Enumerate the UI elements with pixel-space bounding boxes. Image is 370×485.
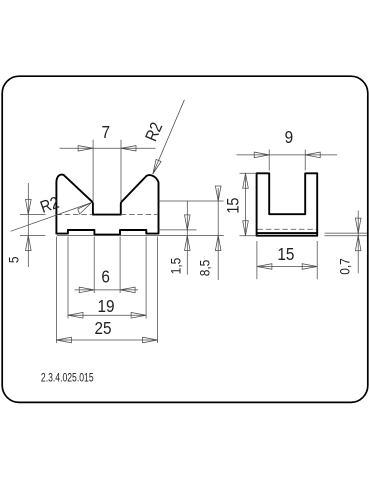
left view part outline bbox=[56, 175, 158, 235]
dimension 5 bbox=[20, 183, 46, 267]
leader R2 left bbox=[11, 203, 92, 232]
svg-text:5: 5 bbox=[6, 256, 22, 263]
svg-text:8,5: 8,5 bbox=[197, 260, 213, 277]
svg-text:15: 15 bbox=[277, 244, 294, 264]
dimension 8,5 bbox=[159, 186, 224, 280]
dimension 7 bbox=[60, 140, 156, 202]
border frame bbox=[2, 76, 368, 402]
right view dash line bbox=[258, 228, 317, 230]
left view centre dash line bbox=[56, 214, 158, 216]
dimension 19 bbox=[68, 237, 146, 319]
svg-text:25: 25 bbox=[94, 318, 111, 338]
dimension 0,7 bbox=[325, 211, 367, 274]
leader R2 top bbox=[153, 100, 185, 174]
right view part outline bbox=[257, 173, 318, 235]
svg-text:R2: R2 bbox=[38, 194, 62, 217]
dimension 9 bbox=[237, 150, 338, 171]
svg-text:15: 15 bbox=[224, 197, 242, 213]
svg-text:2.3.4.025.015: 2.3.4.025.015 bbox=[41, 372, 94, 384]
svg-text:6: 6 bbox=[101, 266, 110, 286]
svg-text:19: 19 bbox=[97, 296, 114, 316]
dimension 1,5 bbox=[159, 201, 197, 275]
svg-text:7: 7 bbox=[102, 122, 111, 142]
dimension 25 bbox=[56, 237, 157, 344]
bottom reference thin line bbox=[57, 235, 224, 237]
svg-text:9: 9 bbox=[285, 127, 294, 147]
dimension 6 bbox=[75, 237, 139, 294]
dimension 15 bottom width bbox=[257, 241, 317, 279]
svg-text:0,7: 0,7 bbox=[337, 258, 353, 275]
svg-text:1,5: 1,5 bbox=[168, 258, 184, 275]
svg-text:R2: R2 bbox=[142, 120, 166, 144]
dimension 15 right view height bbox=[240, 173, 257, 235]
